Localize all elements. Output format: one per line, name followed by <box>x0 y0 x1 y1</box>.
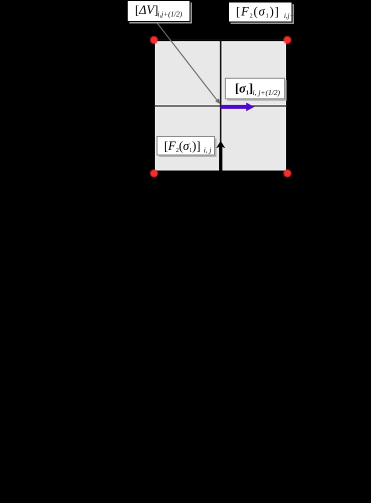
cell i+1,j right <box>222 108 285 170</box>
outer border bottom (thick wall) <box>154 171 288 176</box>
svg-text:[F2(σ1)]: [F2(σ1)] <box>164 139 200 154</box>
svg-text:i,j+1: i,j+1 <box>284 13 297 20</box>
svg-text:i,j+(1/2): i,j+(1/2) <box>158 11 183 19</box>
vertical divider <box>220 40 222 172</box>
black flux arrow (pointing up at bottom centre) <box>216 141 225 175</box>
svg-text:i, j: i, j <box>204 147 212 155</box>
label box sigma1 i,j+1/2 <box>225 78 286 101</box>
svg-text:[σ1]: [σ1] <box>235 82 253 97</box>
label box dV i,j+1/2 <box>127 1 192 24</box>
cell i,j left <box>156 108 219 170</box>
cell i+1,j+1 right <box>222 42 285 104</box>
outer border right <box>286 40 288 174</box>
cell i,j+1 left <box>156 42 219 104</box>
svg-text:[F2(σ1)]: [F2(σ1)] <box>236 5 280 20</box>
svg-text:i, j+(1/2): i, j+(1/2) <box>253 88 281 97</box>
purple sigma arrow (pointing right from centre) <box>221 103 255 112</box>
red corner nodes <box>150 36 291 177</box>
grid cell block (2x2 control volume) <box>154 40 288 174</box>
outer border left <box>153 40 155 174</box>
svg-text:[ΔV]: [ΔV] <box>135 3 158 17</box>
label box F2(sigma1) i,j+1 <box>229 2 298 24</box>
leader arrow from dV label to centre node <box>156 22 220 105</box>
outer border top <box>154 39 288 41</box>
label box F2(sigma1) i,j <box>157 137 217 158</box>
horizontal divider <box>154 105 287 107</box>
